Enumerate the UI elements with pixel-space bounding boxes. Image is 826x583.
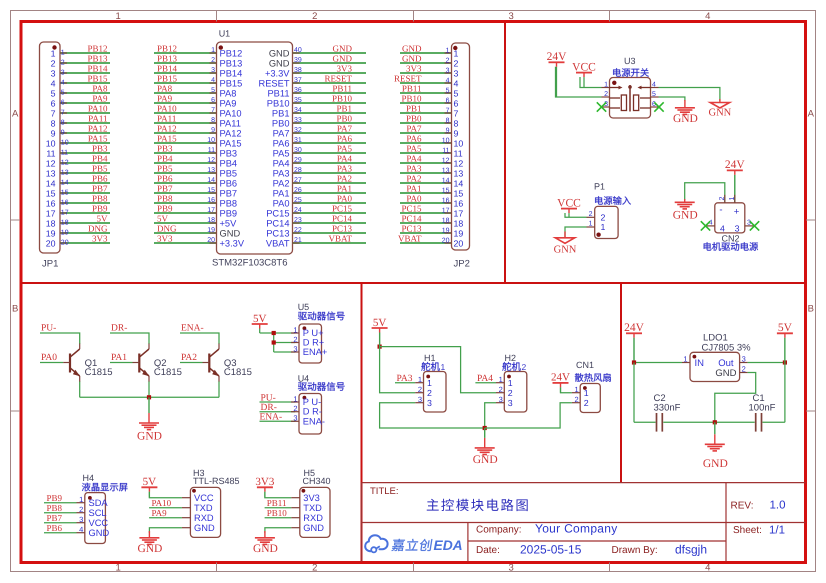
svg-text:GND: GND	[703, 458, 728, 470]
svg-text:18: 18	[61, 220, 69, 227]
power flag 24V (U3 input)	[547, 51, 568, 97]
svg-text:2: 2	[427, 388, 432, 398]
svg-text:9: 9	[446, 128, 450, 135]
U4 label 驱动器信号	[298, 382, 345, 391]
CN2 pin numbers	[709, 196, 751, 233]
power flag 24V (CN1)	[551, 372, 570, 393]
svg-text:3: 3	[61, 70, 65, 77]
svg-text:PB10: PB10	[401, 94, 422, 104]
svg-text:PB9: PB9	[92, 204, 108, 214]
svg-text:PA11: PA11	[220, 118, 241, 128]
svg-text:3V3: 3V3	[303, 493, 320, 503]
svg-text:39: 39	[294, 57, 302, 64]
svg-text:CH340: CH340	[303, 476, 331, 486]
svg-text:H2: H2	[505, 353, 517, 363]
svg-text:4: 4	[211, 77, 215, 84]
svg-text:8: 8	[211, 117, 215, 124]
svg-text:18: 18	[46, 218, 56, 228]
wire Q2 emitter to ground rail	[148, 382, 150, 398]
svg-text:PB11: PB11	[267, 498, 287, 508]
svg-text:GND: GND	[137, 431, 162, 443]
svg-text:18: 18	[207, 217, 215, 224]
svg-text:8: 8	[51, 118, 56, 128]
wires to H3 TXD RXD	[149, 508, 182, 518]
wires 5V to U5 pins 1-3	[260, 333, 299, 352]
U4 pin numbers	[293, 394, 297, 422]
wire PA0 to Q1 base	[40, 362, 63, 364]
svg-text:VBAT: VBAT	[266, 238, 290, 248]
junction servo ground rail	[483, 426, 487, 430]
connector P1 (power input)	[594, 182, 618, 239]
svg-text:7: 7	[454, 108, 459, 118]
title block Company	[476, 522, 618, 536]
wires to H5 TXD RXD	[265, 508, 292, 518]
wire 5V to H3 VCC	[149, 492, 182, 498]
svg-text:17: 17	[442, 208, 450, 215]
svg-text:2: 2	[742, 365, 746, 374]
svg-text:B: B	[12, 304, 18, 315]
svg-text:3V3: 3V3	[406, 64, 422, 74]
svg-text:H1: H1	[424, 353, 436, 363]
svg-text:6: 6	[51, 98, 56, 108]
svg-text:PB1: PB1	[272, 108, 290, 118]
svg-text:12: 12	[46, 158, 56, 168]
wire CN1 pin2 to ground rail	[485, 403, 572, 428]
CN1 label 散热风扇	[575, 373, 611, 382]
H4 pin numbers	[79, 495, 83, 534]
wire GNN to P1 pin1	[565, 227, 587, 238]
svg-text:GND: GND	[333, 54, 353, 64]
svg-text:PA15: PA15	[220, 138, 242, 148]
svg-text:1: 1	[293, 325, 297, 334]
svg-text:TXD: TXD	[303, 503, 322, 513]
svg-text:GND: GND	[673, 210, 698, 222]
svg-text:ENA-: ENA-	[181, 324, 204, 334]
svg-text:19: 19	[454, 228, 464, 238]
svg-text:GND: GND	[269, 58, 290, 68]
svg-text:3: 3	[499, 395, 503, 404]
svg-text:PB8: PB8	[47, 503, 63, 513]
svg-text:1: 1	[51, 48, 56, 58]
svg-text:GNN: GNN	[709, 108, 732, 119]
svg-text:13: 13	[46, 168, 56, 178]
svg-text:3: 3	[418, 395, 422, 404]
regulator LDO1 CJ7805 3%	[690, 333, 751, 382]
svg-text:3: 3	[211, 67, 215, 74]
wire CN2 minus pin to GND	[685, 183, 725, 203]
svg-text:PB11: PB11	[332, 84, 352, 94]
wires U1 right pins	[293, 53, 367, 243]
wire PA4 to H2 pin1	[475, 382, 496, 384]
svg-text:RXD: RXD	[194, 513, 214, 523]
transistor Q3 C1815	[203, 344, 252, 383]
svg-text:2: 2	[522, 362, 527, 372]
sheet title 主控模块电路图	[427, 499, 528, 511]
svg-text:15: 15	[46, 188, 56, 198]
wire 24V to CN1 pin1	[561, 387, 572, 392]
svg-text:2: 2	[293, 335, 297, 344]
svg-text:PB6: PB6	[47, 523, 63, 533]
svg-text:5: 5	[446, 88, 450, 95]
svg-text:24V: 24V	[725, 159, 746, 171]
wire U3 pin5 to GND	[659, 97, 685, 101]
capacitor C1 100nF	[715, 393, 785, 432]
svg-text:VCC: VCC	[194, 493, 214, 503]
svg-text:14: 14	[46, 178, 56, 188]
svg-text:30: 30	[294, 147, 302, 154]
margin column ticks	[217, 11, 610, 572]
net labels U1 right column	[324, 44, 352, 244]
svg-text:2: 2	[604, 91, 608, 98]
wires to U4 pins	[260, 402, 300, 421]
svg-text:6: 6	[446, 98, 450, 105]
switch U3 (power switch)	[602, 56, 659, 118]
svg-text:PB3: PB3	[220, 148, 238, 158]
svg-text:RESET: RESET	[394, 74, 422, 84]
svg-text:36: 36	[294, 87, 302, 94]
svg-text:4: 4	[705, 11, 710, 22]
transistor Q1 C1815	[63, 344, 112, 383]
svg-text:GND: GND	[253, 543, 278, 555]
title block TITLE	[370, 486, 399, 497]
svg-text:1: 1	[441, 362, 446, 372]
svg-text:3V3: 3V3	[92, 234, 108, 244]
connector H1 (servo 1)	[415, 353, 446, 412]
svg-text:12: 12	[61, 160, 69, 167]
svg-text:PA2: PA2	[406, 174, 421, 184]
svg-text:U3: U3	[624, 56, 636, 66]
svg-text:330nF: 330nF	[654, 403, 681, 414]
svg-text:Drawn By:: Drawn By:	[612, 545, 658, 556]
svg-text:5: 5	[211, 87, 215, 94]
svg-text:+3.3V: +3.3V	[220, 238, 245, 248]
no-connect X on CN2 pin4	[701, 221, 710, 230]
CN2 label 电机驱动电源	[704, 242, 758, 251]
svg-text:ENA+: ENA+	[303, 347, 328, 357]
svg-text:2: 2	[61, 60, 65, 67]
IC U1 STM32F103C8T6	[212, 28, 293, 268]
wires to JP2 pins	[400, 53, 452, 243]
svg-text:STM32F103C8T6: STM32F103C8T6	[212, 258, 288, 269]
svg-text:19: 19	[442, 228, 450, 235]
svg-text:PA2: PA2	[181, 353, 197, 363]
svg-text:ENA-: ENA-	[303, 416, 325, 426]
svg-text:PA5: PA5	[273, 148, 290, 158]
svg-text:22: 22	[294, 227, 302, 234]
svg-text:JP2: JP2	[454, 259, 470, 270]
JP2 pin numbers	[442, 48, 450, 245]
svg-text:PC13: PC13	[401, 224, 422, 234]
svg-text:11: 11	[208, 147, 215, 154]
svg-text:PB12: PB12	[87, 44, 107, 54]
svg-text:PB7: PB7	[92, 184, 108, 194]
svg-text:4: 4	[79, 525, 83, 534]
svg-text:2: 2	[499, 385, 503, 394]
svg-text:17: 17	[454, 208, 464, 218]
net label PA3	[397, 374, 413, 384]
svg-text:PB8: PB8	[157, 194, 173, 204]
svg-text:PB11: PB11	[402, 84, 422, 94]
svg-text:PA1: PA1	[406, 184, 421, 194]
CN1 pin numbers	[575, 385, 579, 404]
svg-text:PB12: PB12	[220, 48, 243, 58]
svg-text:REV:: REV:	[731, 501, 754, 512]
wire C2 branch (input cap leg)	[633, 363, 635, 423]
svg-text:VBAT: VBAT	[398, 234, 422, 244]
svg-text:PA6: PA6	[337, 134, 353, 144]
ground GND (H5)	[253, 531, 278, 555]
svg-text:PA2: PA2	[273, 178, 290, 188]
svg-text:17: 17	[61, 210, 69, 217]
net labels PU- DR- ENA- (U4)	[260, 393, 283, 422]
wire PA3 to H1 pin1	[395, 382, 415, 384]
svg-text:PA15: PA15	[88, 134, 108, 144]
U1 pin numbers left 1-20	[207, 47, 215, 244]
svg-text:Company:: Company:	[476, 525, 522, 536]
wire 24V to U3 pin2	[556, 67, 602, 97]
svg-text:16: 16	[61, 200, 69, 207]
svg-text:C1815: C1815	[85, 367, 113, 378]
net labels JP1 column: PB12..3V3	[87, 44, 108, 244]
svg-text:PA6: PA6	[273, 138, 290, 148]
svg-text:TXD: TXD	[194, 503, 213, 513]
svg-text:2: 2	[293, 404, 297, 413]
svg-text:5V: 5V	[778, 322, 793, 334]
svg-text:1: 1	[61, 50, 65, 57]
svg-text:24: 24	[294, 207, 302, 214]
svg-text:11: 11	[46, 148, 55, 158]
junction LDO output	[783, 360, 787, 364]
svg-text:31: 31	[294, 137, 302, 144]
svg-text:DNG: DNG	[157, 224, 177, 234]
svg-text:7: 7	[51, 108, 56, 118]
connector JP2	[452, 43, 470, 270]
U3 pin numbers	[604, 82, 656, 109]
svg-text:1: 1	[575, 385, 579, 394]
svg-text:PB15: PB15	[157, 74, 178, 84]
svg-text:GNN: GNN	[554, 245, 577, 256]
svg-text:1: 1	[601, 222, 606, 232]
wire VCC to U3 pin1	[580, 77, 602, 88]
U1 pin numbers right 40-21	[294, 47, 302, 244]
wire VCC to P1 pin2	[565, 213, 587, 217]
net label PA0	[41, 353, 57, 363]
JP1 pin numbers	[61, 50, 69, 247]
svg-text:PB14: PB14	[157, 64, 178, 74]
svg-text:PA2: PA2	[337, 174, 352, 184]
svg-text:PA12: PA12	[220, 128, 242, 138]
title block Sheet	[733, 525, 785, 537]
svg-text:PB4: PB4	[92, 154, 108, 164]
svg-text:1: 1	[584, 388, 589, 398]
svg-text:5V: 5V	[157, 214, 169, 224]
svg-text:3: 3	[293, 344, 297, 353]
svg-text:PA10: PA10	[157, 104, 177, 114]
svg-text:26: 26	[294, 187, 302, 194]
svg-text:20: 20	[442, 238, 450, 245]
svg-text:10: 10	[61, 140, 69, 147]
svg-text:PA15: PA15	[157, 134, 177, 144]
svg-text:37: 37	[294, 77, 302, 84]
title block frame	[362, 483, 806, 562]
svg-text:PB1: PB1	[336, 104, 352, 114]
wire H5 GND pin to ground	[265, 528, 291, 533]
H4 label 液晶显示屏	[82, 483, 128, 492]
svg-text:1: 1	[418, 375, 422, 384]
svg-text:24V: 24V	[547, 51, 568, 63]
connector U5 (driver signal +)	[298, 302, 328, 363]
svg-text:PB10: PB10	[332, 94, 353, 104]
wire 5V to H2 pin2	[380, 333, 496, 393]
svg-text:5V: 5V	[253, 313, 267, 325]
svg-text:PA5: PA5	[337, 144, 353, 154]
svg-text:13: 13	[61, 170, 69, 177]
svg-text:2: 2	[584, 398, 589, 408]
svg-text:PB15: PB15	[220, 78, 243, 88]
svg-text:5: 5	[652, 91, 656, 98]
svg-text:PA5: PA5	[406, 144, 422, 154]
svg-text:29: 29	[294, 157, 302, 164]
svg-text:GND: GND	[89, 528, 110, 538]
svg-text:PA7: PA7	[337, 124, 353, 134]
wires JP1 pins 1-20	[60, 53, 110, 243]
svg-text:3V3: 3V3	[255, 476, 274, 488]
svg-text:24V: 24V	[624, 322, 645, 334]
svg-text:20: 20	[46, 238, 56, 248]
svg-text:GND: GND	[220, 228, 241, 238]
ground GND (LDO)	[703, 422, 728, 470]
svg-text:PA0: PA0	[41, 353, 57, 363]
power flag 24V (LDO input)	[624, 322, 645, 362]
svg-text:P U-: P U-	[303, 397, 321, 407]
svg-text:PB3: PB3	[157, 144, 173, 154]
svg-text:+5V: +5V	[220, 218, 238, 228]
svg-text:15: 15	[207, 187, 215, 194]
svg-text:6: 6	[454, 98, 459, 108]
svg-text:TITLE:: TITLE:	[370, 486, 399, 497]
net label ENA-	[181, 324, 204, 334]
wire H2 pin3 to ground rail	[485, 403, 496, 428]
svg-text:15: 15	[442, 188, 450, 195]
svg-text:11: 11	[454, 148, 463, 158]
title block Drawn By	[612, 543, 708, 557]
svg-text:1: 1	[446, 48, 450, 55]
H1 pin numbers	[418, 375, 422, 404]
svg-text:PA8: PA8	[157, 84, 173, 94]
svg-text:B: B	[808, 304, 814, 315]
wire 24V to LDO1 IN	[634, 338, 690, 363]
svg-text:PA7: PA7	[406, 124, 422, 134]
svg-text:35: 35	[294, 97, 302, 104]
wire 5V to H1 pin2	[380, 347, 416, 393]
svg-text:1: 1	[499, 375, 503, 384]
svg-text:PB6: PB6	[157, 174, 173, 184]
wire 3V3 to H5	[265, 492, 291, 498]
svg-text:6: 6	[61, 100, 65, 107]
svg-text:GND: GND	[269, 48, 290, 58]
svg-text:9: 9	[454, 128, 459, 138]
svg-text:9: 9	[61, 130, 65, 137]
svg-text:PB9: PB9	[47, 493, 63, 503]
svg-text:SCL: SCL	[89, 508, 107, 518]
svg-text:1: 1	[116, 11, 121, 22]
no-connect X on CN2 pin3	[750, 221, 759, 230]
svg-text:2: 2	[312, 11, 317, 22]
transistor Q2 C1815	[133, 344, 182, 383]
svg-text:40: 40	[294, 47, 302, 54]
svg-text:4: 4	[720, 223, 725, 233]
svg-text:3V3: 3V3	[157, 234, 173, 244]
svg-text:PC13: PC13	[266, 228, 289, 238]
ground GND (servos)	[473, 428, 498, 466]
svg-text:+3.3V: +3.3V	[265, 68, 290, 78]
power flag 5V (H3)	[141, 476, 157, 498]
wire PA1 to Q2 base	[110, 362, 133, 364]
svg-text:GND: GND	[303, 523, 324, 533]
svg-text:PA4: PA4	[406, 154, 422, 164]
svg-text:15: 15	[61, 190, 69, 197]
svg-text:5: 5	[51, 88, 56, 98]
power flag 5V (U5)	[252, 313, 268, 333]
svg-text:P1: P1	[594, 182, 605, 192]
title block Date	[476, 543, 582, 557]
svg-text:+: +	[734, 207, 740, 218]
svg-text:13: 13	[207, 167, 215, 174]
net labels PB9 PB8 PB7 PB6	[47, 493, 63, 533]
title block REV	[731, 500, 786, 512]
svg-text:4: 4	[652, 82, 656, 89]
svg-text:PB10: PB10	[267, 98, 290, 108]
svg-text:4: 4	[446, 78, 450, 85]
svg-text:3: 3	[509, 11, 514, 22]
svg-text:18: 18	[454, 218, 464, 228]
svg-text:17: 17	[46, 208, 56, 218]
ground GND (H3)	[137, 531, 162, 555]
svg-text:SDA: SDA	[89, 498, 109, 508]
svg-text:10: 10	[442, 138, 450, 145]
svg-text:GND: GND	[402, 44, 422, 54]
wire PU- to Q1 collector	[40, 333, 80, 344]
svg-text:PB7: PB7	[157, 184, 173, 194]
svg-text:3: 3	[446, 68, 450, 75]
svg-text:D R-: D R-	[303, 407, 322, 417]
svg-text:32: 32	[294, 127, 302, 134]
wire H1 pin3 to ground rail	[380, 403, 485, 428]
svg-text:2: 2	[589, 211, 593, 218]
svg-text:PB13: PB13	[87, 54, 108, 64]
svg-text:EDA: EDA	[434, 538, 463, 553]
svg-text:PA12: PA12	[157, 124, 177, 134]
svg-text:3: 3	[293, 414, 297, 423]
svg-text:PA3: PA3	[273, 168, 290, 178]
svg-text:1: 1	[79, 495, 83, 504]
svg-text:1: 1	[683, 355, 687, 364]
svg-text:13: 13	[454, 168, 464, 178]
P1 pin numbers	[587, 211, 595, 228]
svg-text:27: 27	[294, 177, 302, 184]
svg-text:H4: H4	[83, 473, 95, 483]
svg-text:PB3: PB3	[92, 144, 108, 154]
svg-text:PB7: PB7	[47, 513, 63, 523]
connector H2 (servo 2)	[496, 353, 527, 412]
net label PA2	[181, 353, 197, 363]
ground GNN (P1)	[554, 232, 577, 256]
svg-text:A: A	[808, 109, 815, 120]
connector JP1	[40, 42, 61, 270]
wire C1 branch (output cap leg)	[784, 363, 786, 423]
svg-text:PA10: PA10	[220, 108, 242, 118]
wire H3 GND pin to ground	[149, 528, 182, 533]
